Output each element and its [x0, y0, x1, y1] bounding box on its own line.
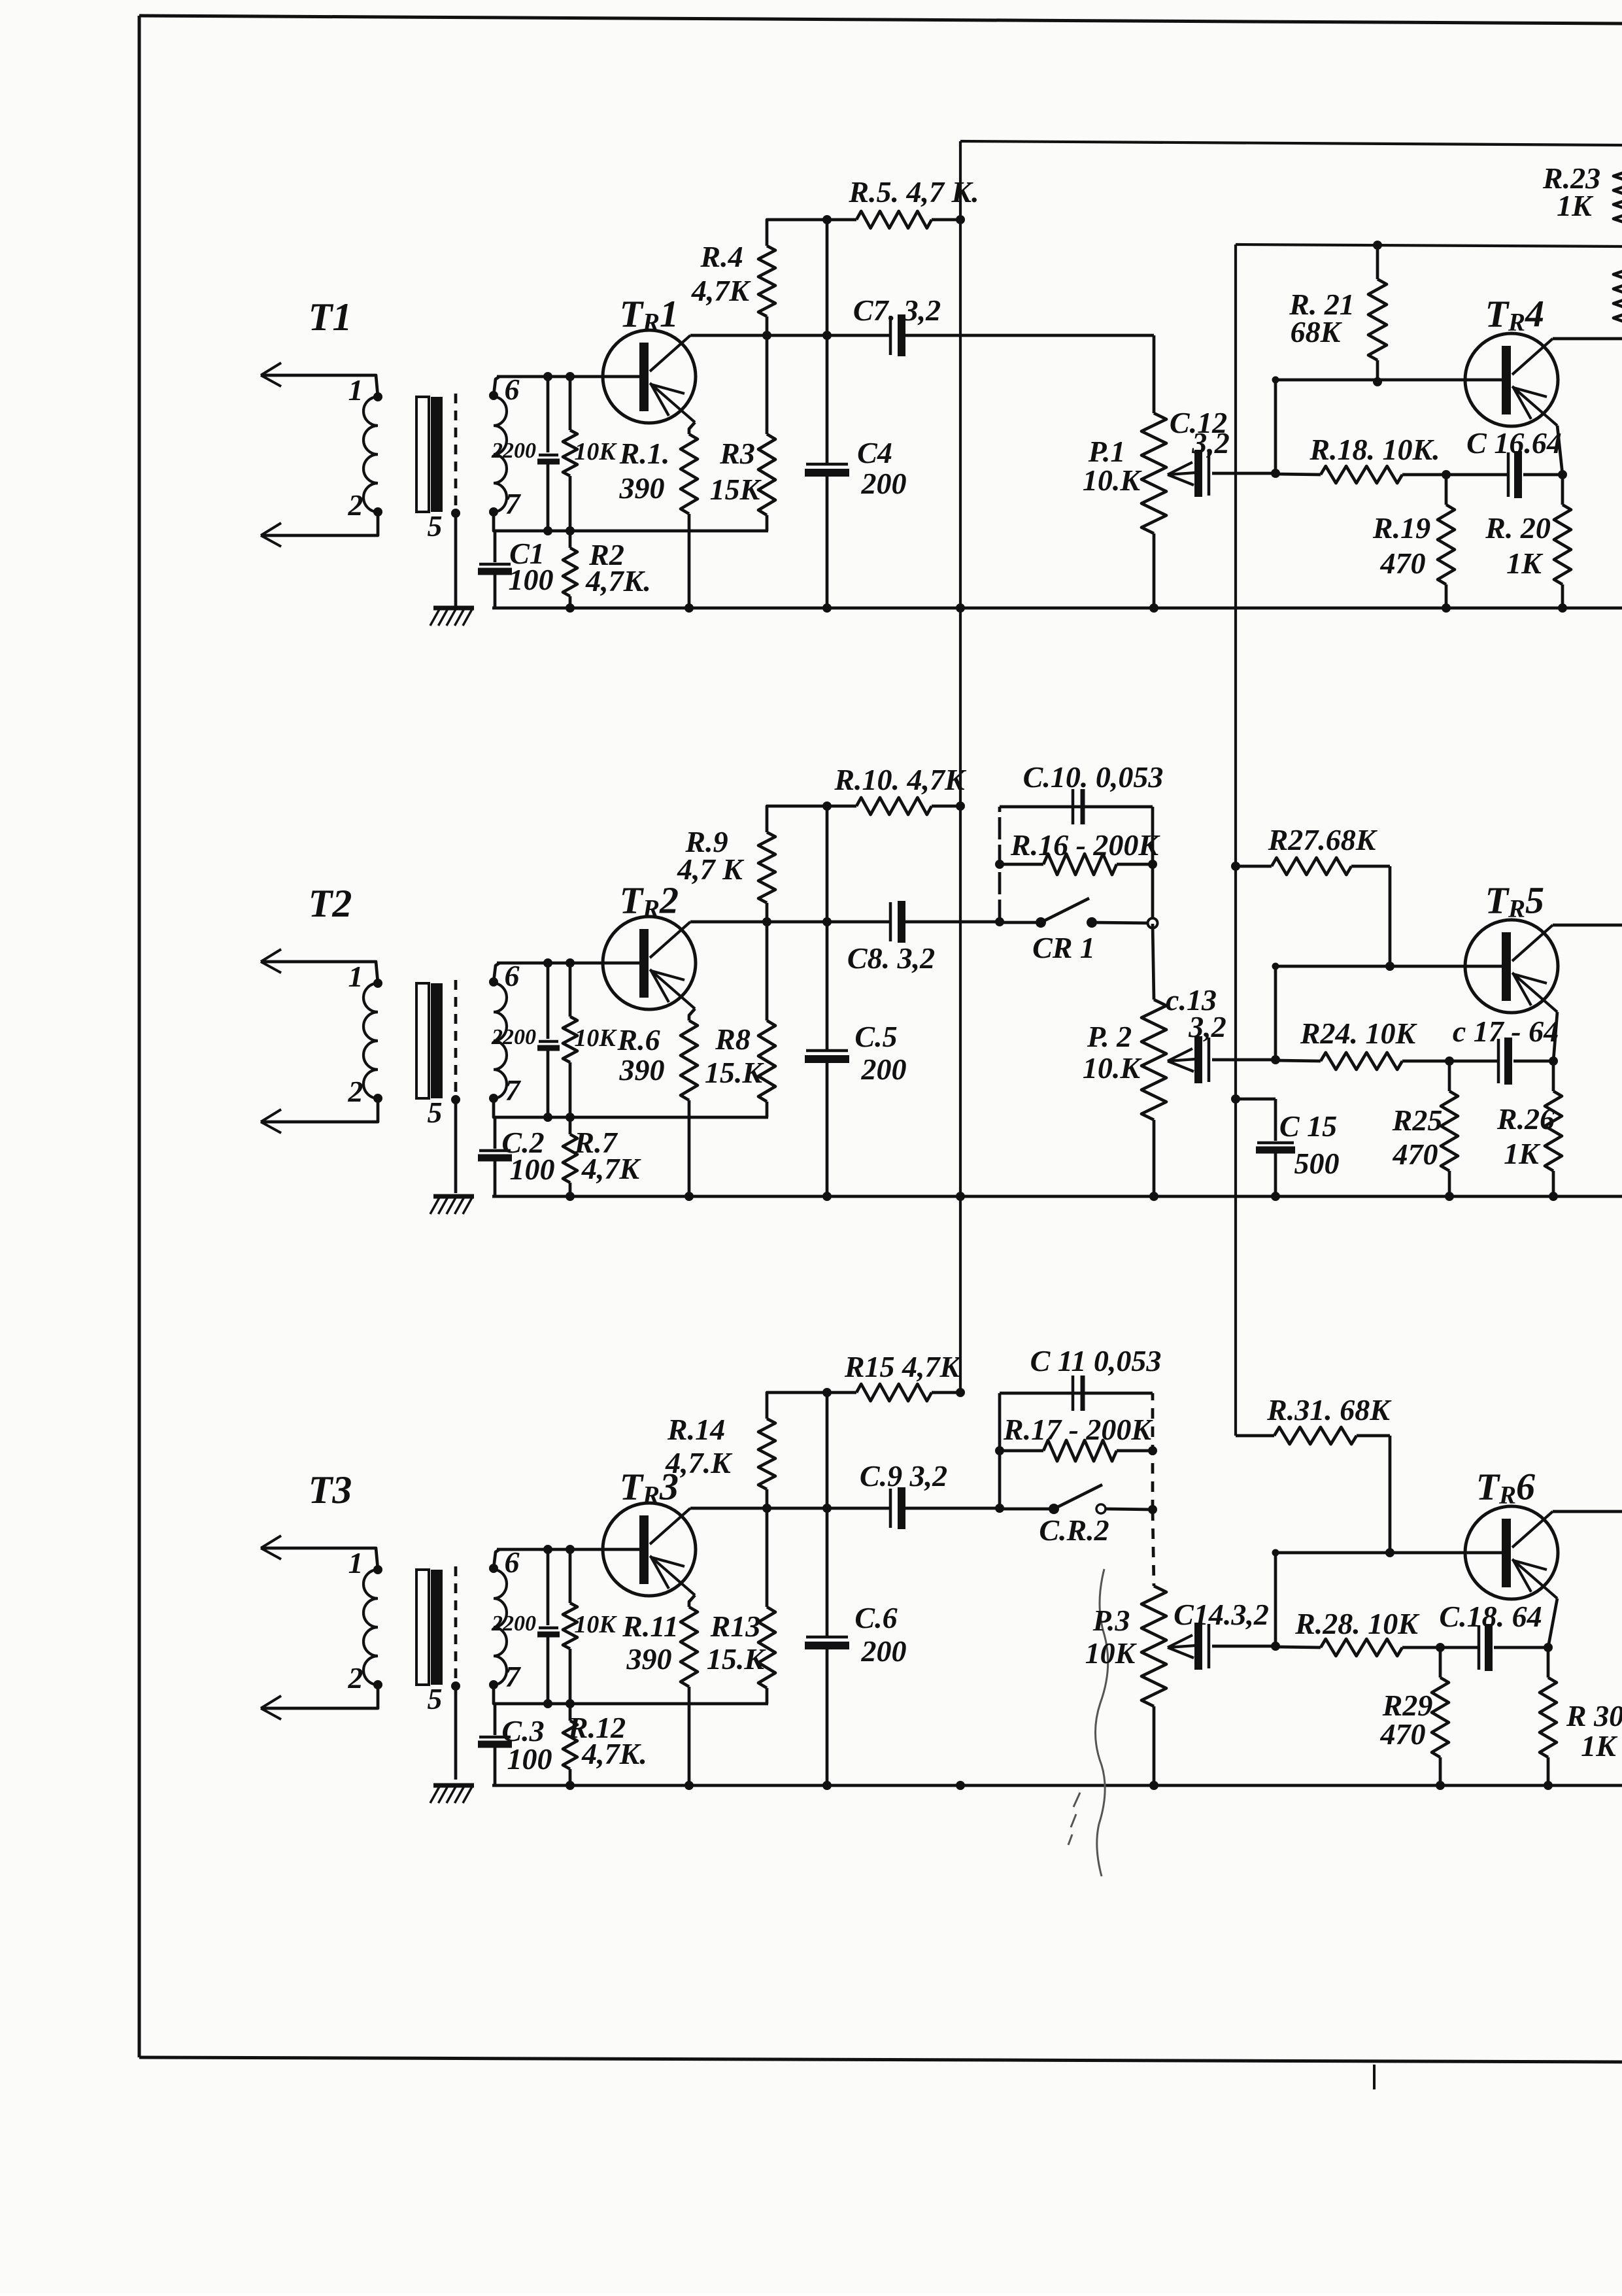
svg-text:3,2: 3,2 [1188, 1010, 1226, 1043]
svg-text:5: 5 [428, 1682, 443, 1715]
svg-text:1: 1 [348, 1546, 363, 1579]
svg-text:500: 500 [1294, 1147, 1340, 1180]
svg-text:R25: R25 [1392, 1104, 1443, 1137]
svg-text:R 30: R 30 [1566, 1699, 1622, 1732]
svg-text:15K: 15K [710, 473, 762, 506]
svg-text:R.26: R.26 [1496, 1102, 1555, 1136]
svg-text:390: 390 [619, 471, 665, 505]
svg-text:T2: T2 [309, 882, 352, 925]
svg-text:R.10. 4,7K: R.10. 4,7K [834, 763, 967, 796]
svg-text:100: 100 [509, 563, 554, 596]
svg-text:1K: 1K [1504, 1137, 1541, 1170]
svg-text:470: 470 [1380, 1717, 1426, 1751]
svg-text:2: 2 [348, 488, 363, 522]
svg-text:7: 7 [505, 487, 522, 520]
svg-text:470: 470 [1380, 547, 1426, 580]
svg-text:R.28. 10K: R.28. 10K [1294, 1607, 1420, 1640]
svg-text:R15 4,7K: R15 4,7K [844, 1350, 962, 1383]
svg-text:2200: 2200 [491, 439, 536, 463]
svg-text:10K: 10K [574, 1611, 617, 1638]
svg-text:4,7K.: 4,7K. [581, 1737, 647, 1770]
svg-text:2: 2 [348, 1661, 363, 1695]
svg-text:R.16 - 200K: R.16 - 200K [1010, 828, 1161, 862]
svg-text:C14.3,2: C14.3,2 [1174, 1598, 1269, 1631]
svg-text:68K: 68K [1291, 315, 1343, 348]
svg-text:470: 470 [1393, 1138, 1438, 1171]
svg-text:200: 200 [861, 1634, 907, 1668]
svg-text:R27.68K: R27.68K [1268, 823, 1378, 856]
svg-text:10K: 10K [574, 438, 617, 465]
svg-text:R.6: R.6 [617, 1023, 660, 1056]
svg-text:R13: R13 [710, 1610, 761, 1643]
svg-text:R.1.: R.1. [619, 437, 670, 470]
svg-text:390: 390 [619, 1053, 665, 1087]
svg-text:C4: C4 [857, 436, 892, 469]
svg-text:4,7.K: 4,7.K [665, 1446, 733, 1479]
svg-text:2200: 2200 [491, 1612, 536, 1636]
svg-text:R.5. 4,7 K.: R.5. 4,7 K. [848, 175, 979, 209]
svg-text:10K: 10K [574, 1024, 617, 1052]
svg-text:100: 100 [507, 1742, 552, 1776]
svg-text:C.R.2: C.R.2 [1039, 1513, 1109, 1547]
svg-text:1: 1 [348, 373, 363, 407]
svg-text:c 17 - 64: c 17 - 64 [1453, 1015, 1559, 1048]
svg-text:R.4: R.4 [700, 240, 743, 273]
svg-text:C.10. 0,053: C.10. 0,053 [1023, 760, 1164, 794]
svg-text:R.31. 68K: R.31. 68K [1266, 1393, 1392, 1427]
svg-text:4,7K.: 4,7K. [585, 564, 651, 598]
svg-text:390: 390 [626, 1642, 672, 1676]
svg-text:5: 5 [428, 509, 443, 543]
svg-text:1K: 1K [1506, 547, 1544, 580]
svg-text:200: 200 [861, 1053, 907, 1086]
svg-text:7: 7 [505, 1660, 522, 1693]
svg-text:C.6: C.6 [854, 1601, 897, 1634]
svg-text:200: 200 [861, 467, 907, 500]
svg-text:4,7K: 4,7K [581, 1152, 642, 1185]
svg-text:C.18. 64: C.18. 64 [1439, 1600, 1542, 1633]
svg-text:C8. 3,2: C8. 3,2 [847, 941, 935, 975]
svg-text:7: 7 [505, 1073, 522, 1107]
svg-text:P.3: P.3 [1092, 1604, 1130, 1637]
svg-text:R.18. 10K.: R.18. 10K. [1309, 433, 1440, 466]
svg-text:R.11: R.11 [622, 1610, 679, 1643]
svg-text:1K: 1K [1557, 189, 1594, 222]
svg-text:C7. 3,2: C7. 3,2 [853, 294, 941, 327]
svg-text:C 16.64: C 16.64 [1466, 426, 1562, 460]
svg-text:5: 5 [428, 1096, 443, 1129]
svg-text:15.K: 15.K [705, 1056, 765, 1089]
svg-text:R24. 10K: R24. 10K [1300, 1017, 1418, 1050]
svg-text:3,2: 3,2 [1191, 426, 1230, 460]
svg-text:R.19: R.19 [1372, 511, 1430, 545]
svg-text:C 15: C 15 [1279, 1109, 1337, 1143]
svg-text:R8: R8 [715, 1022, 751, 1056]
svg-text:2200: 2200 [491, 1025, 536, 1049]
svg-text:100: 100 [510, 1153, 555, 1186]
svg-text:C 11 0,053: C 11 0,053 [1030, 1344, 1162, 1377]
svg-text:R.17 - 200K: R.17 - 200K [1003, 1413, 1154, 1446]
svg-text:10.K: 10.K [1083, 464, 1143, 497]
svg-text:1: 1 [348, 960, 363, 993]
svg-text:4,7 K: 4,7 K [677, 853, 745, 886]
svg-text:P. 2: P. 2 [1087, 1020, 1132, 1053]
svg-text:T1: T1 [309, 295, 352, 339]
svg-text:4,7K: 4,7K [691, 274, 752, 307]
svg-text:C.5: C.5 [854, 1020, 897, 1053]
svg-text:1K: 1K [1581, 1729, 1618, 1763]
svg-text:C.9 3,2: C.9 3,2 [860, 1459, 947, 1493]
svg-text:CR 1: CR 1 [1032, 931, 1095, 964]
svg-text:10K: 10K [1085, 1636, 1138, 1670]
svg-text:T3: T3 [309, 1468, 352, 1511]
svg-text:R.14: R.14 [667, 1413, 725, 1446]
svg-text:10.K: 10.K [1083, 1051, 1143, 1085]
svg-text:R3: R3 [719, 437, 755, 470]
svg-text:2: 2 [348, 1075, 363, 1108]
svg-text:R. 20: R. 20 [1485, 511, 1551, 545]
svg-text:15.K: 15.K [707, 1642, 767, 1676]
